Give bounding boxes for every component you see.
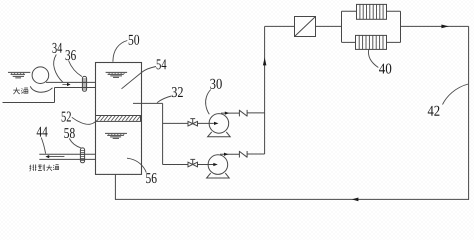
- pump U2 inlet arrow: [213, 163, 218, 166]
- filter 38 (box with diagonal): [295, 17, 316, 37]
- leader 42: [443, 84, 469, 105]
- pump U2 base: [207, 173, 230, 178]
- label 44: [37, 127, 48, 137]
- valve V2 (branch 2): [188, 159, 198, 166]
- sea basin right wall: [54, 88, 56, 103]
- label 40: [379, 64, 391, 74]
- tank outlet pipe 32: [133, 102, 163, 104]
- tank 50: [96, 63, 142, 175]
- top main line out: [401, 25, 469, 27]
- filter bed 52 (hatched band): [96, 116, 141, 122]
- finned coil upper (40): [357, 4, 387, 19]
- branch 2 line valve to pump: [198, 164, 214, 166]
- label 52: [62, 112, 71, 122]
- branch 1 to riser: [247, 112, 265, 114]
- label 34: [52, 43, 62, 53]
- leader 36: [69, 61, 82, 77]
- penetration fitting 36: [82, 76, 86, 91]
- sea basin bottom: [3, 102, 55, 104]
- label 36: [66, 50, 76, 60]
- branch 2 to riser: [247, 153, 265, 155]
- pump U2 discharge line: [220, 153, 239, 155]
- leader 44: [41, 138, 45, 154]
- sea water surface symbol: [8, 72, 30, 78]
- pump U1 base: [208, 132, 231, 137]
- branch 1 line valve to pump: [198, 122, 214, 124]
- discharge pipe upper line: [39, 153, 95, 155]
- riser to top main: [264, 26, 266, 154]
- exchanger loop right header: [400, 11, 402, 42]
- label 排到大海 (discharge to sea): [29, 164, 59, 171]
- branch 2 supply line: [163, 164, 188, 166]
- top line flow arrow: [441, 25, 448, 29]
- pump U2 discharge arrow: [224, 153, 228, 156]
- bottom return line: [115, 198, 468, 200]
- leader 30: [206, 90, 211, 115]
- leader 54: [122, 67, 157, 89]
- tank drain connection: [114, 174, 116, 200]
- bottom line flow arrow: [352, 198, 359, 202]
- pump U1 discharge line: [221, 112, 239, 114]
- leader 40: [368, 50, 378, 68]
- suction flow arrow: [62, 83, 70, 86]
- leader 50: [113, 41, 127, 62]
- label 32: [172, 87, 183, 97]
- pump 34 circle: [32, 67, 49, 84]
- top main line to filter: [265, 25, 295, 27]
- right return downcomer 42: [468, 26, 470, 200]
- tank lower water surface symbol: [105, 133, 127, 138]
- discharge pipe lower line: [39, 158, 95, 160]
- riser up-flow arrow: [263, 57, 267, 65]
- suction pipe lower line: [55, 87, 96, 89]
- tank upper water surface symbol: [106, 72, 128, 77]
- pump U1 discharge arrow: [225, 112, 229, 115]
- upper branch line: [342, 10, 401, 12]
- finned coil lower (40): [356, 35, 387, 49]
- leader 34: [54, 55, 63, 83]
- label 56: [146, 173, 156, 183]
- suction pipe upper line: [46, 81, 96, 83]
- pump U1 (30) circle: [209, 114, 229, 134]
- pump 34 volute arc: [30, 86, 52, 92]
- manifold riser down: [162, 103, 164, 164]
- line filter to exchanger loop: [316, 25, 342, 27]
- label 30: [210, 79, 222, 89]
- discharge flow arrow: [45, 155, 64, 158]
- label 54: [157, 59, 167, 69]
- leader 52: [72, 117, 97, 124]
- label 58: [64, 128, 74, 138]
- pump U2 circle: [208, 155, 228, 175]
- exchanger loop left header: [341, 11, 343, 42]
- label 42: [428, 106, 440, 116]
- leader 56: [127, 158, 146, 172]
- penetration fitting 58: [80, 148, 85, 163]
- label 大海 (sea): [13, 88, 28, 95]
- branch 1 supply line: [163, 122, 188, 124]
- flex joint 1: [239, 110, 247, 117]
- leader 58: [69, 139, 81, 148]
- label 50: [129, 35, 139, 45]
- lower branch line: [342, 41, 401, 43]
- pump U1 inlet arrow: [214, 122, 219, 125]
- leader 32: [157, 96, 172, 103]
- flex joint 2: [239, 151, 247, 158]
- valve V1 (branch 1): [188, 119, 198, 126]
